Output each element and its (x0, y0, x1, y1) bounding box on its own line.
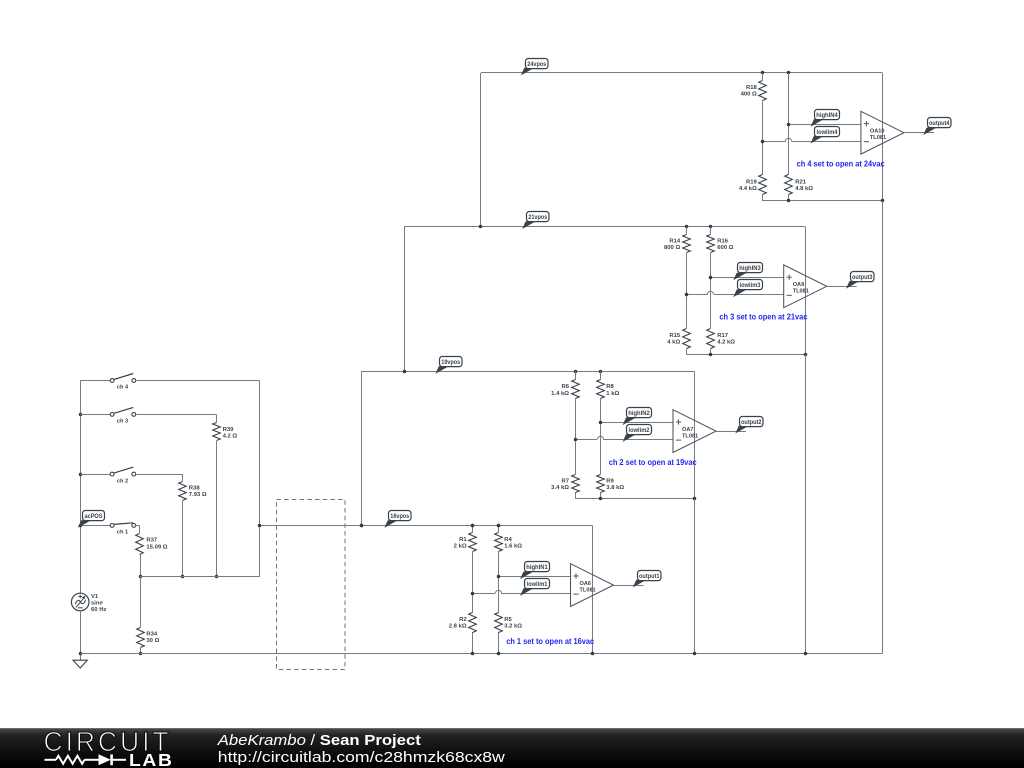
svg-text:ch 3: ch 3 (117, 419, 128, 425)
flag output4 (923, 118, 951, 136)
node: lowlim tap ch1 (471, 592, 475, 596)
wire: highIN1 net (498, 576, 571, 578)
svg-text:R18400 Ω: R18400 Ω (741, 85, 758, 98)
svg-text:ch 2 set to open at 19vac: ch 2 set to open at 19vac (609, 457, 697, 467)
svg-text:ch 3 set to open at 21vac: ch 3 set to open at 21vac (719, 312, 807, 322)
wire: ground rail (80, 653, 882, 655)
node: bottom junction right divider ch2 (599, 497, 603, 501)
resistor R37 15.09 Ohm (136, 525, 168, 576)
switch ch 1 (80, 523, 136, 536)
svg-text:OA9: OA9 (793, 282, 805, 288)
svg-text:ch 4 set to open at 24vac: ch 4 set to open at 24vac (797, 158, 885, 168)
svg-text:16vpos: 16vpos (390, 513, 410, 520)
svg-text:R93.8 kΩ: R93.8 kΩ (606, 479, 624, 492)
resistor R5 3.2 k&#937; (495, 613, 523, 633)
wire: channel 3 bottom (686, 354, 805, 356)
wire: lowlim4 net (763, 138, 861, 141)
svg-text:R14800 Ω: R14800 Ω (664, 239, 681, 252)
wire: left divider ch4 (762, 73, 764, 201)
node: right divider top junction ch2 (599, 370, 603, 374)
wire: channel 2 bottom (575, 498, 694, 500)
dashed annotation box (277, 500, 346, 670)
wire: channel 4 bottom (763, 200, 882, 202)
svg-text:TL081: TL081 (580, 587, 596, 593)
switch ch 4 (80, 374, 136, 391)
flag lowlim1 (520, 579, 549, 596)
node: ground junction ch1 feedback (591, 652, 595, 656)
resistor R9 3.8 k&#937; (597, 475, 625, 493)
svg-text:lowlim1: lowlim1 (527, 581, 549, 588)
node: lowlim tap ch2 (574, 438, 578, 442)
wire: V1 to ground rail (80, 611, 82, 660)
resistor R8 1 k&#937; (597, 380, 620, 399)
svg-text:R81 kΩ: R81 kΩ (606, 384, 619, 397)
wire: channel 1 positive rail (16vpos net) (260, 525, 593, 527)
svg-text:24vpos: 24vpos (527, 61, 547, 68)
wire: lowlim2 net (575, 436, 673, 439)
flag highIN4 (811, 110, 840, 127)
node: rail meets ground bus (79, 652, 83, 656)
resistor R15 4 k&#937; (667, 329, 690, 349)
ground (73, 660, 87, 668)
svg-text:ch 1 set to open at 16vac: ch 1 set to open at 16vac (506, 636, 594, 646)
svg-text:highIN3: highIN3 (739, 265, 761, 272)
switch ch 2 (80, 467, 136, 484)
op-amp OA6 TL081 (571, 564, 614, 607)
svg-text:R154 kΩ: R154 kΩ (667, 333, 681, 346)
node: bottom junction feedback ch3 (804, 353, 808, 357)
node: highIN tap ch2 (599, 421, 603, 425)
svg-text:http://circuitlab.com/c28hmzk6: http://circuitlab.com/c28hmzk68cx8w (218, 749, 505, 766)
voltage source V1 sine 60 Hz (71, 593, 106, 613)
svg-text:R194.4 kΩ: R194.4 kΩ (739, 179, 758, 192)
svg-text:output4: output4 (929, 120, 950, 127)
svg-text:R16600 Ω: R16600 Ω (717, 239, 733, 252)
node: bottom junction right divider ch3 (709, 353, 713, 357)
node: highIN tap ch4 (787, 123, 791, 127)
resistor R18 400 &#937; (741, 81, 767, 101)
svg-text:AbeKrambo / Sean Project: AbeKrambo / Sean Project (217, 732, 421, 749)
resistor R39 4.2 Ohm (213, 414, 238, 576)
resistor R16 600 &#937; (707, 235, 734, 253)
svg-text:R22.8 kΩ: R22.8 kΩ (449, 617, 468, 630)
wire: output ch3 (827, 286, 857, 288)
resistor R21 4.8 k&#937; (785, 175, 814, 195)
wire: right divider ch3 (710, 227, 712, 355)
resistor R19 4.4 k&#937; (739, 175, 766, 195)
node: junction on channel 2 rail (403, 370, 407, 374)
resistor R34 30 Ohm (137, 577, 160, 654)
flag lowlim2 (623, 425, 652, 442)
node: lowlim tap ch3 (685, 293, 689, 297)
CIRCUIT LAB logo (44, 726, 174, 768)
node: junction on channel 3 rail (479, 225, 483, 229)
flag 19vpos (435, 357, 462, 374)
svg-text:ch 1: ch 1 (117, 530, 128, 536)
wire: left divider ch3 (686, 227, 688, 355)
switch ch 3 (80, 407, 136, 424)
svg-text:R394.2 Ω: R394.2 Ω (223, 427, 238, 440)
node: R14 top junction (685, 225, 689, 229)
node: 16vpos R4 junction (497, 524, 501, 528)
wire: feedback/output rail ch4 (882, 73, 884, 201)
node: 16vpos R1 junction (471, 524, 475, 528)
svg-text:R214.8 kΩ: R214.8 kΩ (795, 179, 813, 192)
node: ground junction ch3 column (804, 652, 808, 656)
svg-text:lowlim4: lowlim4 (817, 129, 839, 136)
node: R37 to bus (139, 575, 143, 579)
flag highIN1 (520, 562, 549, 580)
node: highIN tap ch1 (497, 575, 501, 579)
svg-text:ch 4: ch 4 (117, 385, 129, 391)
node: bottom junction feedback ch2 (693, 497, 697, 501)
svg-text:LAB: LAB (129, 750, 174, 768)
node: ground junction ch2 column (693, 652, 697, 656)
flag output2 (735, 417, 763, 434)
flag highIN3 (733, 263, 762, 281)
svg-text:ch 2: ch 2 (117, 478, 128, 484)
resistor R1 2 k&#937; (454, 533, 477, 552)
svg-text:V1sine60 Hz: V1sine60 Hz (91, 594, 106, 613)
node: bottom junction right divider ch4 (787, 199, 791, 203)
wire: ch2 bottom to ground rail (694, 499, 696, 654)
wire: feedback/output rail ch2 (694, 371, 696, 498)
resistor R7 3.4 k&#937; (551, 475, 579, 493)
node: bottom junction feedback ch4 (881, 199, 885, 203)
resistor R6 1.4 k&#937; (551, 380, 579, 399)
resistor R4 1.6 k&#937; (495, 533, 523, 552)
node: ground junction R5 (497, 652, 501, 656)
wire: feedback/output rail ch3 (805, 227, 807, 355)
svg-text:R3430 Ω: R3430 Ω (146, 632, 159, 645)
resistor R17 4.2 k&#937; (707, 329, 736, 349)
node: junction on channel 1 rail (360, 524, 364, 528)
svg-text:R73.4 kΩ: R73.4 kΩ (551, 479, 570, 492)
flag 21vpos (522, 212, 549, 230)
wire: resistor bus (140, 576, 259, 578)
node: R6 top junction (574, 370, 578, 374)
svg-text:output3: output3 (852, 274, 873, 281)
node: R39 to bus (215, 575, 219, 579)
node: R34 to ground rail (139, 652, 143, 656)
svg-text:TL081: TL081 (870, 135, 886, 141)
wire: right divider ch4 (788, 73, 790, 201)
flag lowlim4 (811, 127, 840, 144)
node: right divider top junction ch4 (787, 71, 791, 75)
wire: right divider ch1 (498, 525, 500, 653)
wire: highIN4 net (789, 124, 861, 126)
wire: ch3 switch to R39 (136, 414, 217, 416)
node: ch1/acPOS rail junction (79, 524, 83, 528)
node: ground junction R2 (471, 652, 475, 656)
wire: output ch1 (614, 585, 644, 587)
wire: channel 2 positive rail (19vpos net) (361, 371, 694, 373)
node: R18 top junction (761, 71, 765, 75)
wire: step-down from channel 3 rail (404, 227, 406, 372)
wire: ch3 bottom to ground rail (805, 354, 807, 653)
svg-text:highIN2: highIN2 (628, 410, 650, 417)
wire: ch4 bottom to ground rail (882, 201, 884, 653)
node: lowlim tap ch4 (761, 140, 765, 144)
wire: channel 4 positive rail (24vpos net) (481, 72, 883, 74)
node: highIN tap ch3 (709, 276, 713, 280)
svg-text:21vpos: 21vpos (528, 214, 548, 221)
flag acPOS (78, 511, 105, 528)
footer bar (0, 728, 1024, 768)
node: 16vpos meets ch2 step (360, 524, 364, 528)
resistor R38 7.93 Ohm (179, 474, 207, 577)
svg-text:R3715.09 Ω: R3715.09 Ω (146, 538, 167, 551)
wire: lowlim3 net (686, 291, 783, 294)
svg-text:R41.6 kΩ: R41.6 kΩ (504, 537, 522, 550)
node: ch2 rail junction (79, 473, 83, 477)
flag output3 (846, 272, 874, 289)
wire: ch4 drop vertical (259, 381, 261, 577)
svg-text:lowlim2: lowlim2 (629, 427, 651, 434)
svg-text:OA10: OA10 (870, 129, 885, 135)
flag output1 (633, 571, 661, 588)
svg-text:R12 kΩ: R12 kΩ (454, 537, 468, 550)
svg-text:highIN1: highIN1 (526, 564, 548, 571)
svg-text:R174.2 kΩ: R174.2 kΩ (717, 333, 735, 346)
flag 16vpos (384, 511, 411, 528)
op-amp OA10 TL081 (861, 111, 904, 154)
wire: right divider ch2 (600, 371, 602, 498)
node: R1 top junction (471, 524, 475, 528)
svg-text:output1: output1 (639, 573, 660, 580)
node: ch3 rail junction (79, 413, 83, 417)
wire: lowlim1 net (473, 590, 571, 593)
wire: channel 3 positive rail (21vpos net) (404, 226, 805, 228)
node: drop crosses 16vpos (258, 524, 262, 528)
svg-text:lowlim3: lowlim3 (740, 282, 762, 289)
flag 24vpos (521, 59, 548, 76)
svg-text:output2: output2 (741, 419, 762, 426)
svg-text:TL081: TL081 (793, 289, 809, 295)
resistor R2 2.8 k&#937; (449, 613, 477, 633)
svg-text:acPOS: acPOS (85, 513, 103, 520)
svg-text:TL081: TL081 (682, 433, 698, 439)
wire: left divider ch2 (575, 371, 577, 498)
op-amp OA9 TL081 (784, 265, 827, 308)
flag highIN2 (623, 408, 652, 426)
flag lowlim3 (733, 280, 762, 298)
node: right divider top junction ch1 (497, 524, 501, 528)
wire: feedback/output rail ch1 (592, 525, 594, 653)
wire: output ch4 (904, 132, 934, 134)
svg-text:R387.93 Ω: R387.93 Ω (189, 486, 207, 499)
svg-text:OA7: OA7 (682, 427, 694, 433)
wire: highIN2 net (600, 422, 673, 424)
svg-text:highIN4: highIN4 (816, 112, 838, 119)
wire: output ch2 (716, 431, 746, 433)
resistor R14 800 &#937; (664, 235, 690, 253)
wire: highIN3 net (711, 277, 784, 279)
svg-text:OA6: OA6 (580, 581, 592, 587)
wire: step-down from channel 4 rail (480, 73, 482, 227)
wire: left rail (80, 381, 82, 594)
op-amp OA7 TL081 (673, 410, 716, 453)
svg-text:R61.4 kΩ: R61.4 kΩ (551, 384, 570, 397)
svg-text:R53.2 kΩ: R53.2 kΩ (504, 617, 522, 630)
wire: ch4 switch to drop (136, 380, 260, 382)
wire: ch1 switch to R37 (136, 525, 140, 527)
wire: step-down from channel 2 rail (361, 371, 363, 525)
node: right divider top junction ch3 (709, 225, 713, 229)
wire: ch2 switch to R38 (136, 474, 183, 476)
svg-text:19vpos: 19vpos (441, 359, 461, 366)
node: R38 to bus (181, 575, 185, 579)
wire: left divider ch1 (472, 525, 474, 653)
